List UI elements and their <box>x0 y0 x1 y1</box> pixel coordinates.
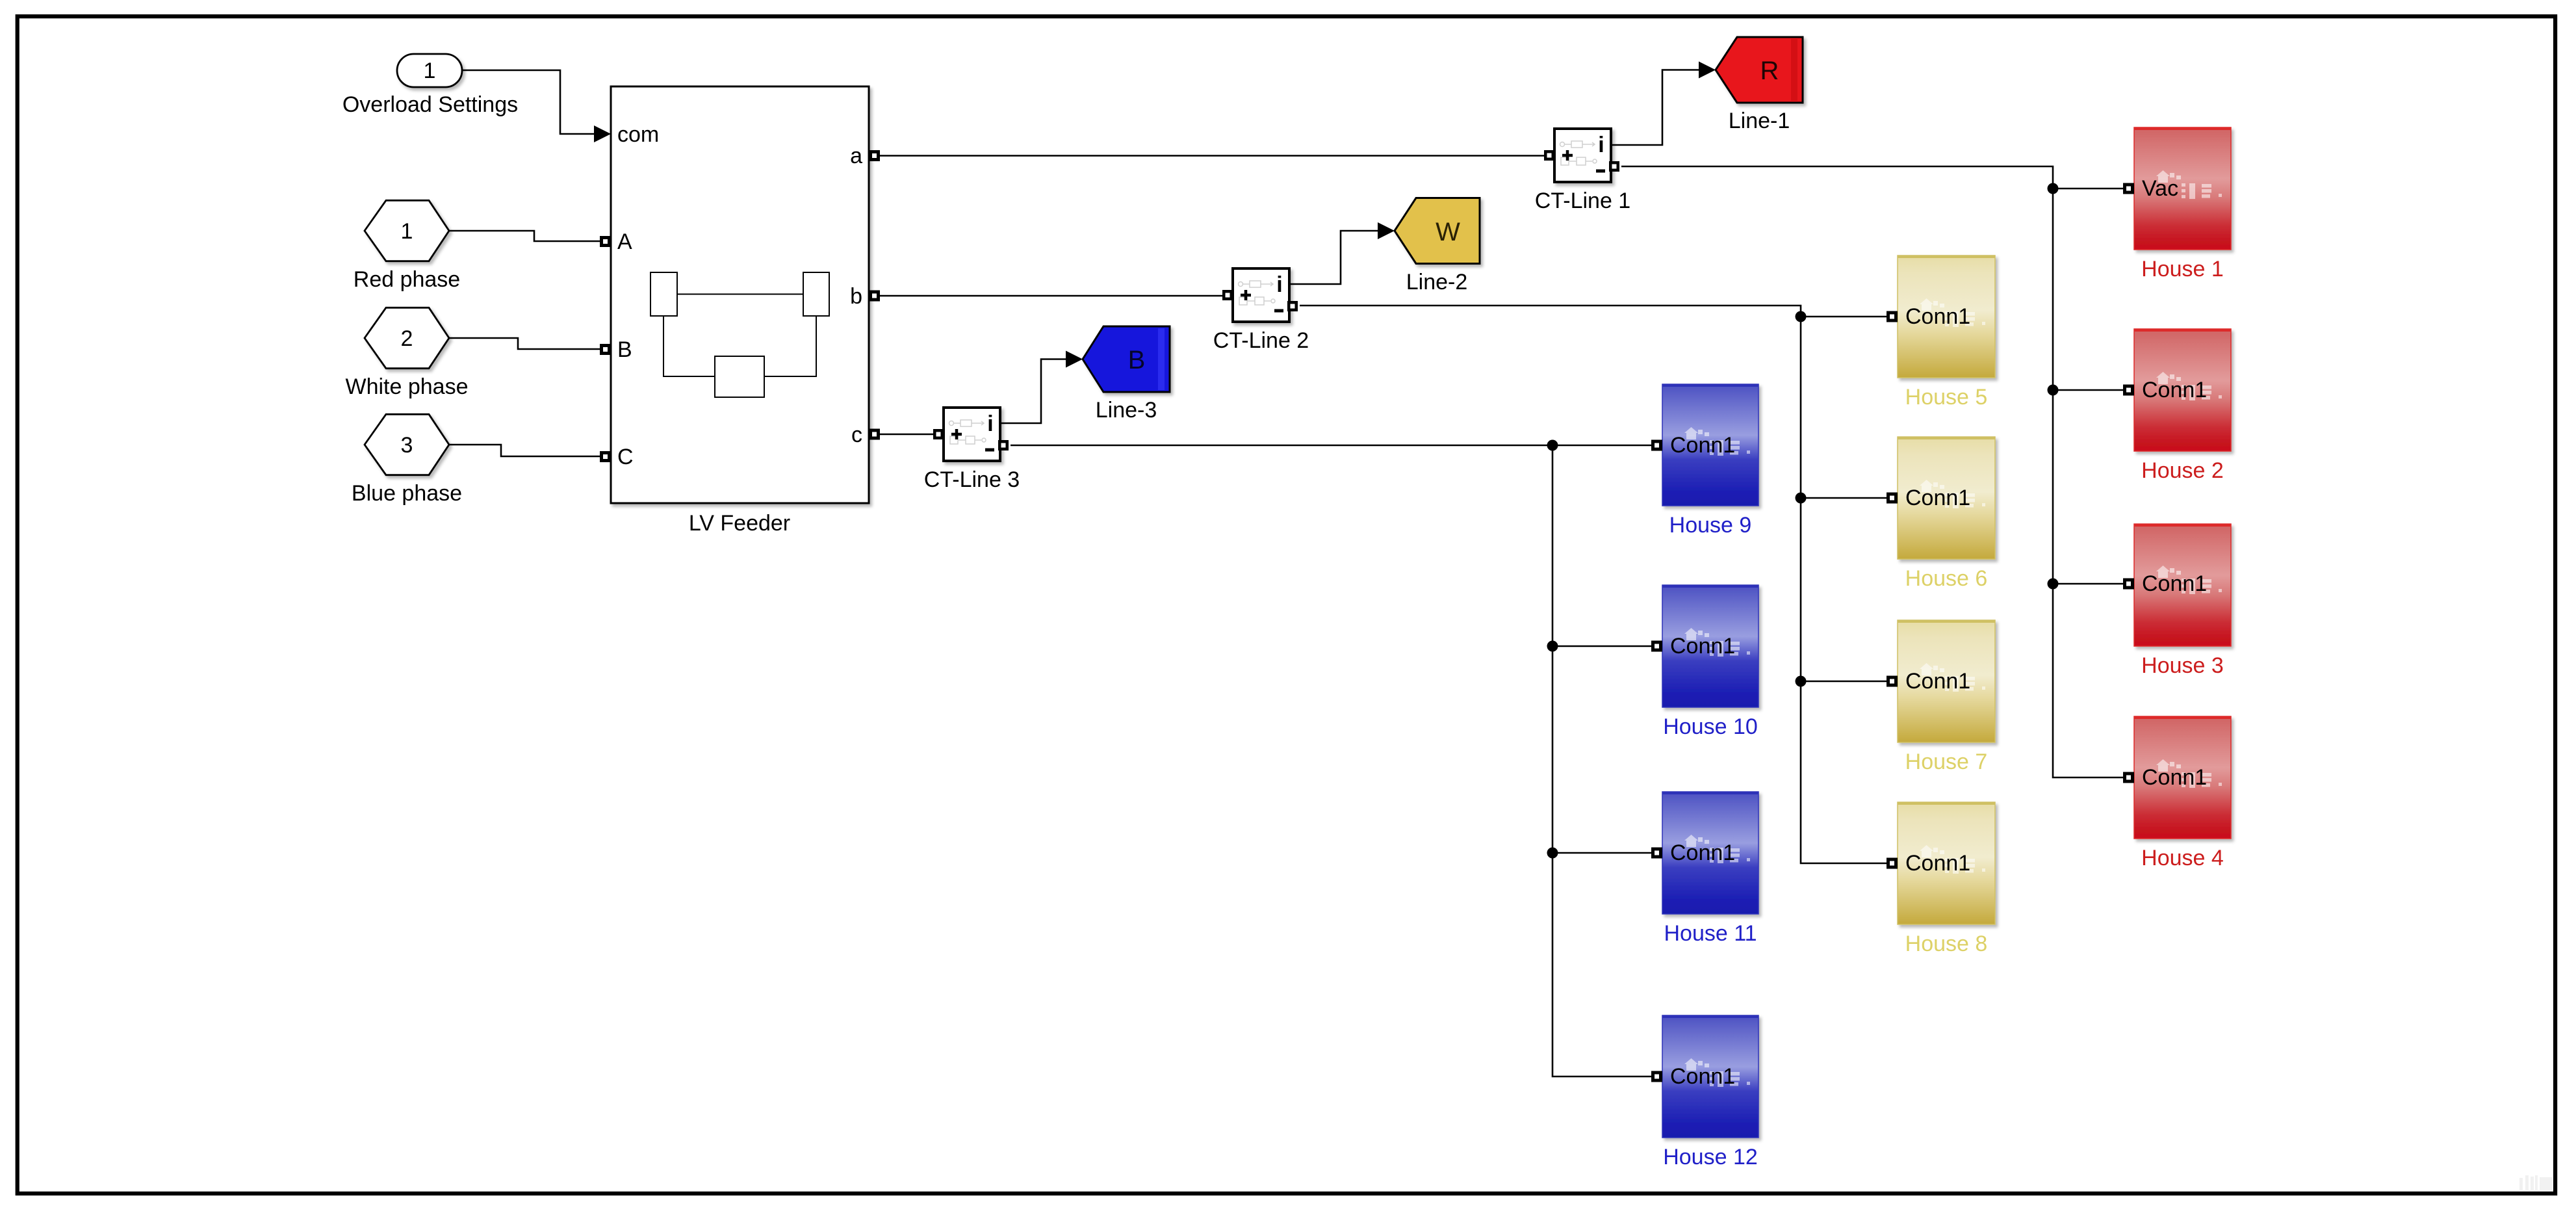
port Conn1 of House 3 <box>2123 579 2134 590</box>
wire branch to House 7 <box>1801 681 1887 683</box>
svg-text:Conn1: Conn1 <box>1905 851 1970 876</box>
wire branch to House 11 <box>1552 852 1651 854</box>
port Conn1 of House 12 <box>1651 1071 1662 1082</box>
red trunk vertical <box>2053 189 2123 777</box>
svg-text:House 8: House 8 <box>1905 932 1988 956</box>
port Conn1 of House 5 <box>1887 311 1898 322</box>
subsystem block House 5 <box>1898 255 1995 410</box>
current measurement block CT-Line 1 <box>1554 129 1611 182</box>
port Conn1 of House 6 <box>1887 493 1898 504</box>
svg-text:CT-Line 1: CT-Line 1 <box>1535 189 1630 213</box>
port c of LV Feeder <box>869 429 880 440</box>
wire c to CT-Line 3 <box>880 434 934 436</box>
wire Blue phase to C <box>449 445 600 456</box>
junction dot House 10 <box>1547 641 1558 652</box>
current measurement block CT-Line 3 <box>944 408 1000 461</box>
junction dot House 7 <box>1796 676 1807 687</box>
subsystem block House 12 <box>1662 1015 1758 1169</box>
port - of CT-Line 1 <box>1609 161 1619 172</box>
port b of LV Feeder <box>869 291 880 302</box>
svg-text:1: 1 <box>401 219 413 244</box>
port + of CT-Line 1 <box>1544 150 1554 161</box>
subsystem block House 11 <box>1662 792 1758 946</box>
port Conn1 of House 9 <box>1651 440 1662 451</box>
yellow trunk vertical <box>1801 317 1887 863</box>
svg-text:Conn1: Conn1 <box>1670 433 1735 458</box>
port Conn1 of House 7 <box>1887 676 1898 687</box>
junction dot House 2 <box>2048 385 2059 396</box>
subsystem block House 10 <box>1662 585 1758 739</box>
svg-text:House 6: House 6 <box>1905 566 1988 591</box>
junction dot House 3 <box>2048 579 2059 590</box>
junction dot House 1 <box>2048 183 2059 194</box>
subsystem block House 9 <box>1662 384 1758 538</box>
wire a to CT-Line 1 <box>880 155 1545 157</box>
svg-text:House 2: House 2 <box>2141 458 2224 483</box>
wire branch to House 10 <box>1552 646 1651 647</box>
port Conn1 of House 11 <box>1651 848 1662 859</box>
svg-text:3: 3 <box>401 433 413 458</box>
wire branch to House 6 <box>1801 497 1887 499</box>
svg-text:House 7: House 7 <box>1905 750 1988 774</box>
wire White phase to B <box>449 338 600 349</box>
faint watermark bottom right <box>2519 1175 2553 1190</box>
svg-text:i: i <box>987 411 993 436</box>
port C of LV Feeder <box>600 451 611 462</box>
port + of CT-Line 2 <box>1222 290 1233 300</box>
junction dot House 11 <box>1547 848 1558 859</box>
svg-text:com: com <box>617 122 659 147</box>
connection port hexagon 1 "Red phase" <box>354 200 460 292</box>
svg-text:C: C <box>617 445 634 469</box>
svg-text:House 10: House 10 <box>1663 714 1758 739</box>
subsystem block House 4 <box>2134 716 2231 870</box>
port Conn1 of House 8 <box>1887 858 1898 869</box>
wire Overload Settings to com <box>462 70 595 134</box>
wire branch to House 3 <box>2053 583 2123 585</box>
svg-text:House 5: House 5 <box>1905 385 1988 410</box>
port B of LV Feeder <box>600 344 611 355</box>
svg-text:Conn1: Conn1 <box>1670 841 1735 865</box>
connection port hexagon 2 "White phase" <box>346 307 469 399</box>
svg-text:Conn1: Conn1 <box>2142 571 2207 596</box>
port A of LV Feeder <box>600 236 611 247</box>
svg-text:B: B <box>1128 346 1146 374</box>
inport block 1 "Overload Settings" <box>342 54 518 117</box>
svg-text:Conn1: Conn1 <box>1905 669 1970 694</box>
svg-text:House 9: House 9 <box>1669 513 1752 538</box>
svg-text:House 11: House 11 <box>1664 921 1757 946</box>
svg-text:Conn1: Conn1 <box>1670 1064 1735 1089</box>
svg-text:R: R <box>1760 57 1779 85</box>
svg-text:c: c <box>851 423 862 447</box>
wire CT-Line 3 i to Line-3 <box>1000 359 1067 424</box>
wire CT-Line 2 - to yellow trunk and House 5 <box>1300 306 1887 317</box>
svg-text:Conn1: Conn1 <box>1905 304 1970 329</box>
wire CT-Line 1 - to red trunk and House 1 <box>1621 166 2123 189</box>
svg-text:Conn1: Conn1 <box>1670 634 1735 659</box>
svg-text:Vac: Vac <box>2142 176 2178 201</box>
svg-text:a: a <box>850 144 862 168</box>
goto tag Line-2 (W) <box>1395 198 1480 295</box>
wire CT-Line 1 i to Line-1 <box>1611 70 1700 146</box>
svg-text:Red phase: Red phase <box>354 267 460 292</box>
svg-text:Conn1: Conn1 <box>1905 486 1970 510</box>
junction dot House 5 <box>1796 311 1807 322</box>
svg-text:Blue phase: Blue phase <box>352 481 462 506</box>
port - of CT-Line 2 <box>1287 301 1298 311</box>
svg-text:Overload Settings: Overload Settings <box>342 92 518 117</box>
port + of CT-Line 3 <box>933 429 944 439</box>
svg-text:CT-Line 2: CT-Line 2 <box>1213 328 1309 353</box>
wire branch to House 2 <box>2053 389 2123 391</box>
svg-text:W: W <box>1436 218 1460 246</box>
subsystem block House 3 <box>2134 524 2231 678</box>
subsystem block House 2 <box>2134 329 2231 483</box>
svg-text:b: b <box>850 284 862 309</box>
svg-text:House 3: House 3 <box>2141 653 2224 678</box>
svg-text:House 4: House 4 <box>2141 846 2224 870</box>
blue trunk vertical <box>1552 445 1651 1076</box>
subsystem block LV Feeder <box>611 86 869 536</box>
wire b to CT-Line 2 <box>880 295 1223 297</box>
svg-text:i: i <box>1276 272 1282 297</box>
subsystem block House 1 <box>2134 127 2231 281</box>
connection port hexagon 3 "Blue phase" <box>352 414 462 506</box>
port - of CT-Line 3 <box>998 440 1009 450</box>
subsystem block House 8 <box>1898 802 1995 956</box>
junction dot House 6 <box>1796 493 1807 504</box>
svg-text:CT-Line 3: CT-Line 3 <box>924 467 1020 492</box>
svg-text:House 1: House 1 <box>2141 257 2224 281</box>
svg-text:i: i <box>1598 133 1604 157</box>
goto tag Line-3 (B) <box>1083 326 1170 423</box>
svg-text:A: A <box>617 229 632 254</box>
wire CT-Line 2 i to Line-2 <box>1289 231 1379 284</box>
junction dot House 9 <box>1547 440 1558 451</box>
svg-text:1: 1 <box>424 59 436 83</box>
port Conn1 of House 4 <box>2123 772 2134 783</box>
port Conn1 of House 1 <box>2123 183 2134 194</box>
svg-text:Conn1: Conn1 <box>2142 765 2207 790</box>
port Conn1 of House 10 <box>1651 641 1662 652</box>
svg-text:White phase: White phase <box>346 374 469 399</box>
wire Red phase to A <box>449 231 600 241</box>
port a of LV Feeder <box>869 150 880 161</box>
svg-text:Line-1: Line-1 <box>1729 109 1790 133</box>
wire CT-Line 3 - to blue trunk and House 9 <box>1011 445 1651 447</box>
svg-text:House 12: House 12 <box>1663 1145 1758 1169</box>
svg-text:LV Feeder: LV Feeder <box>689 511 790 536</box>
svg-text:Conn1: Conn1 <box>2142 378 2207 402</box>
port Conn1 of House 2 <box>2123 385 2134 396</box>
svg-text:Line-2: Line-2 <box>1406 270 1468 294</box>
subsystem block House 7 <box>1898 620 1995 774</box>
subsystem block House 6 <box>1898 437 1995 591</box>
goto tag Line-1 (R) <box>1716 37 1803 133</box>
svg-text:2: 2 <box>401 326 413 351</box>
svg-text:B: B <box>617 337 632 362</box>
current measurement block CT-Line 2 <box>1233 268 1289 322</box>
svg-text:Line-3: Line-3 <box>1096 398 1157 423</box>
